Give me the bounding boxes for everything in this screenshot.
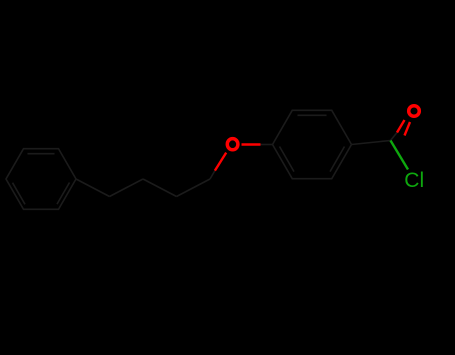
bond C-Cl green [391,141,409,170]
bond C2-C1 [177,179,211,197]
bond C1-O dark half [210,171,215,179]
aromatic inner bond right ring top [298,114,327,116]
bond O-ring dark half [261,144,273,146]
chain bonds (butoxy) [76,179,210,197]
aromatic inner bond left ring 2 [13,183,26,205]
bond C1-O red half [215,153,226,171]
bond ring-carbonyl C [352,141,391,145]
benzene ring left (phenyl) [6,149,76,210]
C=O double bond main red line [397,120,405,133]
atom O carbonyl label [409,106,420,117]
bond ring-C4 [76,179,110,197]
aromatic inner bond right ring bottom-right [330,147,345,172]
C=O double bond: dark tail near C [391,133,398,141]
bond O-ring red half [242,143,261,145]
bond C3-C2 [143,179,177,197]
C=O double bond second red line [405,122,411,136]
atom O ether label [227,139,238,150]
bond C4-C3 [110,179,144,197]
benzene ring right [273,110,352,178]
aromatic inner bond left ring 1 [57,183,70,205]
svg-text:Cl: Cl [404,169,424,192]
aromatic inner bond left ring 3 [28,153,55,155]
aromatic inner bond right ring bottom-left [280,147,295,172]
